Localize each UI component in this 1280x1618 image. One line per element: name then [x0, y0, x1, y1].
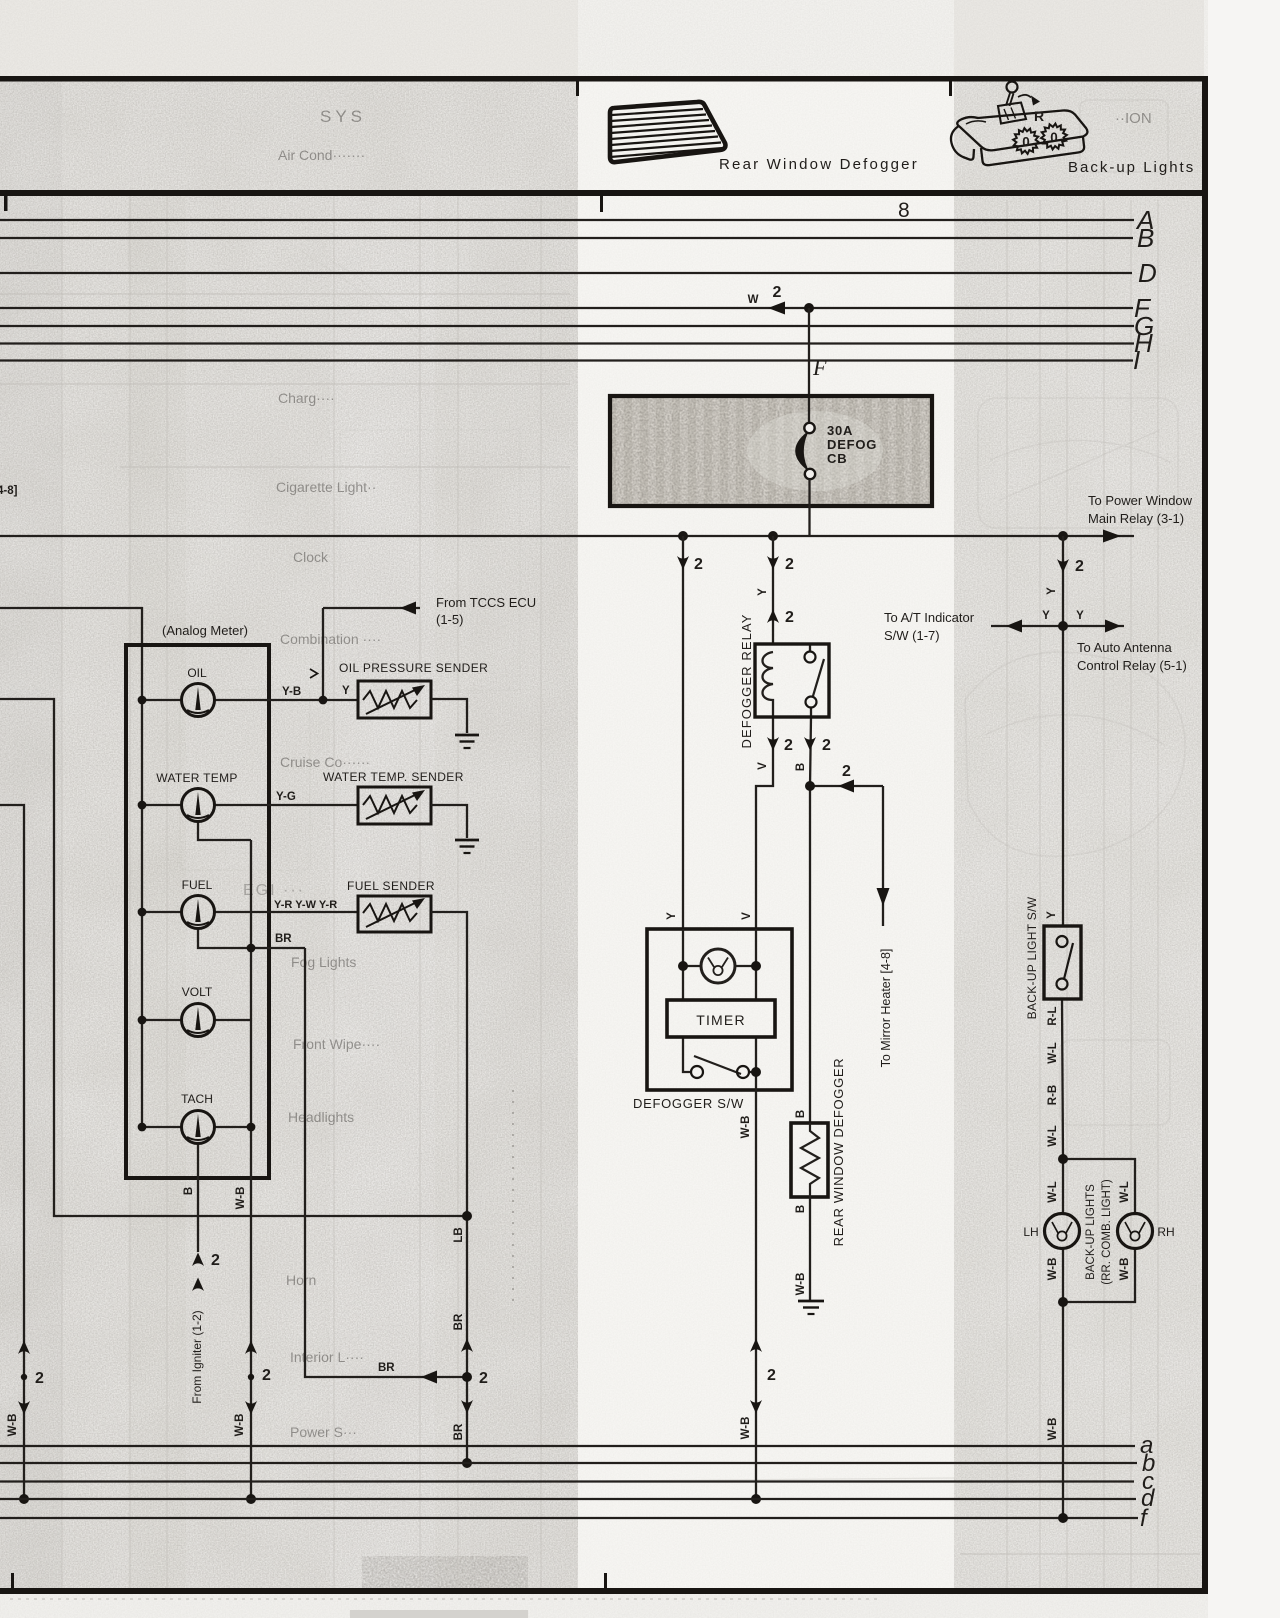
- svg-text:WATER TEMP: WATER TEMP: [156, 771, 237, 785]
- svg-text:To Mirror Heater [4-8]: To Mirror Heater [4-8]: [879, 949, 893, 1068]
- svg-text:From Igniter (1-2): From Igniter (1-2): [190, 1310, 204, 1403]
- svg-text:2: 2: [785, 609, 794, 626]
- svg-text:Interior L····: Interior L····: [290, 1349, 364, 1365]
- svg-text:To Auto Antenna: To Auto Antenna: [1077, 640, 1172, 655]
- svg-text:W-B: W-B: [7, 1414, 19, 1437]
- svg-text:Rear Window Defogger: Rear Window Defogger: [719, 156, 919, 173]
- svg-text:W-B: W-B: [740, 1116, 752, 1139]
- svg-text:··ION: ··ION: [1115, 110, 1152, 127]
- svg-text:BR: BR: [453, 1313, 465, 1330]
- svg-text:W-B: W-B: [1119, 1258, 1131, 1281]
- svg-text:B: B: [795, 1110, 807, 1118]
- svg-text:TIMER: TIMER: [696, 1012, 746, 1028]
- svg-text:DEFOGGER RELAY: DEFOGGER RELAY: [739, 613, 754, 748]
- svg-text:2: 2: [35, 1370, 44, 1387]
- svg-text:Y: Y: [757, 588, 769, 596]
- svg-text:2: 2: [694, 556, 703, 573]
- svg-text:RH: RH: [1157, 1225, 1174, 1239]
- svg-text:BR: BR: [453, 1423, 465, 1440]
- svg-text:2: 2: [842, 763, 851, 780]
- svg-text:W: W: [748, 294, 759, 306]
- svg-text:W-B: W-B: [234, 1414, 246, 1437]
- svg-text:Back-up Lights: Back-up Lights: [1068, 159, 1195, 176]
- svg-text:2: 2: [211, 1252, 220, 1269]
- svg-text:Y-B: Y-B: [282, 686, 301, 698]
- svg-text:W-B: W-B: [795, 1273, 807, 1296]
- svg-text:Y: Y: [1046, 587, 1058, 595]
- svg-text:Y: Y: [666, 912, 678, 920]
- svg-text:To A/T Indicator: To A/T Indicator: [884, 610, 975, 625]
- svg-text:2: 2: [767, 1367, 776, 1384]
- svg-text:BACK-UP LIGHT S/W: BACK-UP LIGHT S/W: [1025, 896, 1039, 1019]
- svg-text:WATER TEMP. SENDER: WATER TEMP. SENDER: [323, 770, 464, 784]
- svg-text:BR: BR: [378, 1362, 395, 1374]
- svg-text:DEFOG: DEFOG: [827, 437, 877, 452]
- svg-text:LH: LH: [1023, 1225, 1038, 1239]
- svg-text:Cruise Co······: Cruise Co······: [280, 754, 370, 770]
- svg-text:B: B: [795, 763, 807, 771]
- svg-text:LB: LB: [453, 1227, 465, 1242]
- svg-text:(1-5): (1-5): [436, 612, 463, 627]
- svg-text:W-B: W-B: [235, 1187, 247, 1210]
- svg-text:Fog Lights: Fog Lights: [291, 954, 356, 970]
- svg-text:Control Relay (5-1): Control Relay (5-1): [1077, 658, 1187, 673]
- svg-text:2: 2: [1075, 558, 1084, 575]
- svg-text:B: B: [183, 1187, 195, 1195]
- svg-text:Y: Y: [342, 685, 350, 697]
- svg-text:S/W (1-7): S/W (1-7): [884, 628, 940, 643]
- svg-text:To Power Window: To Power Window: [1088, 493, 1193, 508]
- svg-text:Air Cond·······: Air Cond·······: [278, 147, 365, 163]
- svg-text:Y: Y: [1046, 911, 1058, 919]
- svg-text:Y: Y: [1042, 610, 1050, 622]
- svg-text:D: D: [1138, 258, 1157, 288]
- svg-text:Combination ····: Combination ····: [280, 631, 381, 647]
- svg-text:OIL: OIL: [187, 666, 207, 680]
- svg-text:(RR. COMB. LIGHT): (RR. COMB. LIGHT): [1101, 1179, 1113, 1285]
- svg-text:R: R: [1034, 108, 1044, 124]
- svg-text:Cigarette Light··: Cigarette Light··: [276, 479, 376, 495]
- svg-text:30A: 30A: [827, 423, 853, 438]
- svg-text:W-L: W-L: [1047, 1042, 1059, 1063]
- svg-text:W-L: W-L: [1119, 1181, 1131, 1202]
- svg-text:W-B: W-B: [1047, 1258, 1059, 1281]
- svg-text:2: 2: [773, 284, 782, 301]
- svg-text:From TCCS ECU: From TCCS ECU: [436, 595, 536, 610]
- svg-text:R-L: R-L: [1047, 1006, 1059, 1025]
- svg-text:B: B: [1137, 223, 1154, 253]
- svg-text:SYS: SYS: [320, 107, 366, 126]
- svg-text:2: 2: [784, 737, 793, 754]
- svg-text:BR: BR: [275, 933, 292, 945]
- svg-text:FUEL: FUEL: [182, 878, 213, 892]
- svg-text:W-B: W-B: [740, 1417, 752, 1440]
- svg-text:W-L: W-L: [1047, 1181, 1059, 1202]
- svg-text:2: 2: [262, 1367, 271, 1384]
- svg-text:Power S···: Power S···: [290, 1424, 357, 1440]
- svg-text:2: 2: [785, 556, 794, 573]
- svg-text:EGI ···: EGI ···: [243, 882, 305, 899]
- svg-text:0: 0: [1022, 135, 1030, 150]
- svg-text:0: 0: [1050, 130, 1058, 145]
- svg-text:Y-G: Y-G: [276, 791, 296, 803]
- svg-text:2: 2: [822, 737, 831, 754]
- svg-text:Charg····: Charg····: [278, 390, 335, 406]
- svg-text:Y: Y: [1076, 610, 1084, 622]
- svg-text:B: B: [795, 1205, 807, 1213]
- svg-text:Main Relay (3-1): Main Relay (3-1): [1088, 511, 1184, 526]
- svg-text:(Analog Meter): (Analog Meter): [162, 623, 248, 638]
- svg-text:REAR WINDOW DEFOGGER: REAR WINDOW DEFOGGER: [831, 1058, 846, 1247]
- svg-text:W-L: W-L: [1047, 1125, 1059, 1146]
- svg-text:Horn: Horn: [286, 1272, 316, 1288]
- svg-text:2: 2: [479, 1370, 488, 1387]
- svg-text:BACK-UP LIGHTS: BACK-UP LIGHTS: [1085, 1184, 1097, 1280]
- svg-text:4-8]: 4-8]: [0, 485, 18, 497]
- svg-text:I: I: [1133, 345, 1140, 375]
- svg-text:FUEL SENDER: FUEL SENDER: [347, 879, 435, 893]
- svg-text:8: 8: [898, 199, 910, 222]
- svg-text:R-B: R-B: [1047, 1085, 1059, 1105]
- svg-text:Headlights: Headlights: [288, 1109, 354, 1125]
- svg-text:Clock: Clock: [293, 549, 329, 565]
- svg-text:V: V: [757, 762, 769, 770]
- svg-text:TACH: TACH: [181, 1092, 213, 1106]
- svg-text:CB: CB: [827, 451, 847, 466]
- svg-text:F: F: [812, 355, 827, 380]
- svg-text:OIL PRESSURE SENDER: OIL PRESSURE SENDER: [339, 661, 488, 675]
- svg-text:W-B: W-B: [1047, 1418, 1059, 1441]
- svg-text:Y-R Y-W Y-R: Y-R Y-W Y-R: [274, 899, 337, 911]
- svg-text:DEFOGGER S/W: DEFOGGER S/W: [633, 1096, 744, 1111]
- svg-text:VOLT: VOLT: [182, 985, 213, 999]
- svg-text:V: V: [741, 912, 753, 920]
